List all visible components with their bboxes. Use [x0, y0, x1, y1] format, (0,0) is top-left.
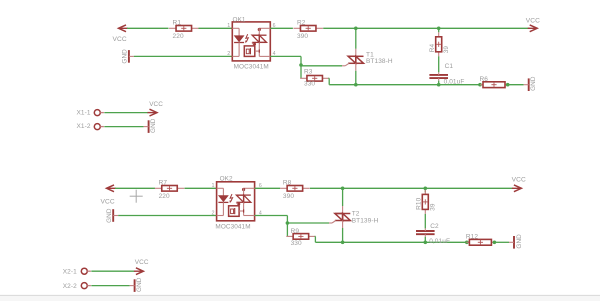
- svg-text:0,01uF: 0,01uF: [444, 78, 465, 85]
- svg-text:R2: R2: [297, 20, 306, 27]
- resistor R4 39 (snubber): [438, 32, 440, 37]
- wire GND to OK2 pin 2: [118, 215, 216, 217]
- wire top rail down to R10: [424, 188, 426, 192]
- wire R12 to GND: [494, 241, 509, 243]
- node C2 bottom junction: [424, 241, 428, 245]
- svg-text:VCC: VCC: [526, 18, 540, 25]
- svg-text:R4: R4: [429, 44, 436, 53]
- svg-text:1: 1: [211, 183, 214, 189]
- supply VCC arrow (top-right): [528, 27, 536, 29]
- wire C2 to bottom rail: [424, 237, 426, 243]
- svg-text:BT138-H: BT138-H: [366, 58, 393, 65]
- svg-text:VCC: VCC: [135, 259, 149, 266]
- supply VCC arrow (X2-1): [134, 270, 142, 272]
- wire GND to OK1 pin 2: [134, 55, 232, 57]
- svg-text:330: 330: [291, 240, 302, 247]
- svg-text:39: 39: [430, 203, 437, 211]
- resistor R2 390: [293, 27, 300, 29]
- resistor R12: [466, 241, 469, 243]
- capacitor C2: [416, 230, 435, 232]
- svg-text:390: 390: [297, 33, 308, 40]
- svg-text:330: 330: [304, 81, 315, 88]
- wire VCC to R1: [127, 27, 169, 29]
- wire R2 to VCC (top rail): [323, 27, 529, 29]
- svg-text:GND: GND: [516, 234, 523, 249]
- svg-text:GND: GND: [106, 208, 113, 223]
- node T2 bottom junction: [341, 241, 345, 245]
- wire VCC to R7: [115, 187, 155, 189]
- capacitor C1: [429, 74, 448, 76]
- wire R8 to VCC (top rail ch2): [310, 187, 514, 189]
- svg-text:VCC: VCC: [512, 176, 526, 183]
- resistor R3 330: [300, 77, 307, 79]
- wire OK2 pin 4 right: [255, 215, 288, 217]
- svg-text:220: 220: [159, 193, 170, 200]
- svg-text:R6: R6: [480, 76, 489, 83]
- supply VCC arrow (right, channel 2): [512, 187, 520, 189]
- svg-text:220: 220: [173, 33, 184, 40]
- svg-text:MOC3041M: MOC3041M: [234, 63, 269, 70]
- supply GND symbol (left, channel 2): [112, 209, 114, 222]
- wire R6 to GND: [508, 84, 524, 86]
- wire top rail to T2: [342, 188, 344, 206]
- wire top rail down to R4: [438, 28, 440, 32]
- svg-text:1: 1: [227, 23, 230, 29]
- svg-text:2: 2: [227, 51, 230, 57]
- supply VCC arrow (X1-1): [148, 112, 156, 114]
- node R12 right junction: [493, 241, 497, 245]
- svg-text:X1-2: X1-2: [77, 123, 91, 130]
- resistor R1 220: [169, 27, 176, 29]
- supply VCC arrow (top-left): [120, 27, 128, 29]
- node R4 top junction: [437, 27, 441, 31]
- wire top rail to T1: [355, 28, 357, 49]
- svg-text:VCC: VCC: [149, 101, 163, 108]
- svg-text:39: 39: [443, 46, 450, 54]
- node R12 left junction: [465, 241, 469, 245]
- node R10 top junction: [424, 187, 428, 191]
- supply GND symbol (X1-2): [148, 120, 150, 133]
- svg-text:MOC3041M: MOC3041M: [215, 223, 250, 230]
- svg-text:R10: R10: [416, 197, 423, 210]
- svg-text:BT139-H: BT139-H: [352, 217, 379, 224]
- svg-text:GND: GND: [150, 118, 157, 133]
- svg-text:R1: R1: [173, 20, 182, 27]
- resistor R8 390: [280, 187, 287, 189]
- wire R10 to C2: [424, 214, 426, 229]
- wire OK1 pin 4 right: [270, 55, 301, 57]
- resistor R6: [480, 84, 483, 86]
- wire bottom rail (T2 to R12): [343, 241, 467, 243]
- node C1 bottom junction: [437, 83, 441, 87]
- svg-text:OK2: OK2: [220, 175, 233, 182]
- resistor R10 39 (snubber): [424, 190, 426, 195]
- svg-text:VCC: VCC: [113, 36, 127, 43]
- supply GND symbol (X2-2): [134, 279, 136, 292]
- node T2-MT2 junction: [341, 187, 345, 191]
- supply GND symbol (left, channel 1): [128, 50, 130, 63]
- svg-text:X2-1: X2-1: [63, 268, 77, 275]
- node T1-MT2 junction: [354, 27, 358, 31]
- triac T2 BT139-H: [342, 206, 344, 214]
- svg-text:0,01uF: 0,01uF: [429, 238, 450, 245]
- wire gate node to T1 gate: [301, 65, 342, 67]
- svg-text:C2: C2: [430, 223, 439, 230]
- wire R9 to bottom rail: [314, 235, 317, 237]
- svg-text:390: 390: [283, 193, 294, 200]
- svg-text:R3: R3: [304, 69, 313, 76]
- wire C1 to bottom rail: [438, 81, 440, 85]
- svg-text:GND: GND: [136, 277, 143, 292]
- svg-text:GND: GND: [530, 76, 537, 91]
- svg-text:C1: C1: [445, 63, 454, 70]
- wire R1 to OK1 pin 1: [199, 27, 233, 29]
- wire X1-1 to VCC: [104, 112, 148, 114]
- wire R4 to C1: [438, 56, 440, 72]
- svg-text:VCC: VCC: [101, 199, 115, 206]
- wire OK2 pin 6 to R8: [255, 187, 281, 189]
- wire R7 to OK2 pin 1: [185, 187, 217, 189]
- svg-text:R8: R8: [283, 180, 292, 187]
- svg-text:R7: R7: [159, 180, 168, 187]
- node R6 right junction: [506, 83, 510, 87]
- svg-text:X1-1: X1-1: [77, 109, 91, 116]
- triac T1 BT138-H: [355, 49, 357, 57]
- svg-text:R9: R9: [291, 228, 300, 235]
- wire X2-2 to GND: [91, 285, 129, 287]
- origin cross marker: [130, 195, 143, 197]
- wire R3 to bottom rail: [328, 77, 331, 79]
- svg-text:R12: R12: [466, 234, 479, 241]
- wire gate node to T2 gate: [287, 222, 329, 224]
- node gate junction (channel 2): [286, 221, 290, 225]
- svg-text:X2-2: X2-2: [63, 283, 77, 290]
- supply GND symbol (right, channel 2): [513, 236, 515, 249]
- node T1 bottom junction: [354, 83, 358, 87]
- wire X2-1 to VCC: [91, 270, 134, 272]
- svg-text:2: 2: [211, 210, 214, 216]
- wire T1 to bottom rail: [355, 71, 357, 85]
- wire OK1 pin 6 to R2: [270, 27, 293, 29]
- node R6 left junction: [478, 83, 482, 87]
- supply VCC arrow (left, channel 2): [108, 187, 116, 189]
- op-to-coupler OK1 MOC3041M: [232, 22, 270, 61]
- wire pin4 down to gate node: [300, 56, 302, 78]
- resistor R7 220: [155, 187, 162, 189]
- svg-text:OK1: OK1: [233, 16, 246, 23]
- node gate junction (channel 1): [299, 63, 303, 67]
- wire pin4 down to R9: [286, 216, 288, 237]
- wire bottom rail (T1 to R6): [356, 84, 480, 86]
- wire X1-2 to GND: [104, 126, 143, 128]
- supply GND symbol (right, channel 1): [528, 78, 530, 91]
- resistor R9 330: [286, 235, 293, 237]
- optocoupler OK2 MOC3041M: [217, 182, 255, 221]
- svg-text:GND: GND: [121, 49, 128, 64]
- wire T2 to bottom rail: [342, 228, 344, 242]
